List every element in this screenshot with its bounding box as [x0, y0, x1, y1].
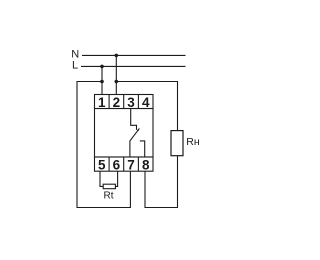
svg-text:1: 1 [98, 95, 106, 110]
wire branch left at y81 [77, 82, 130, 208]
svg-text:Rt: Rt [104, 191, 114, 202]
wire N supply line [82, 54, 186, 56]
node junction dot on L line [100, 65, 104, 69]
switch blade arrowhead tip [137, 128, 139, 131]
switch contact fixed lead from terminal 3 [131, 109, 137, 130]
resistor RH load box [171, 131, 183, 156]
node junction dot right branch [115, 80, 119, 84]
wire L supply line [81, 65, 186, 67]
switch contact seat from terminal 8 [140, 141, 145, 157]
terminal row top (1-4) [95, 95, 154, 109]
svg-text:2: 2 [113, 95, 121, 110]
svg-text:4: 4 [142, 95, 150, 110]
switch blade to terminal 7 [130, 128, 140, 157]
svg-text:L: L [72, 60, 78, 72]
svg-text:7: 7 [127, 158, 135, 173]
relay body box [95, 109, 154, 158]
wire Rt to terminal 6 [115, 171, 117, 186]
wire load bottom return to terminal 8 [145, 156, 178, 208]
terminal row bottom (5-8) [95, 157, 154, 171]
node junction dot on N line [115, 54, 119, 58]
svg-text:Rн: Rн [186, 136, 200, 148]
svg-text:8: 8 [142, 158, 150, 173]
svg-text:6: 6 [113, 158, 121, 173]
wire branch right to load [116, 82, 177, 131]
wire L drop to terminal 1 [101, 66, 103, 94]
wire N drop to terminal 2 [115, 55, 117, 94]
resistor Rt sensor box [103, 184, 115, 189]
svg-text:5: 5 [98, 158, 106, 173]
svg-text:3: 3 [127, 95, 135, 110]
wire terminal 5 to Rt [100, 171, 103, 186]
node junction dot left branch [100, 80, 104, 84]
